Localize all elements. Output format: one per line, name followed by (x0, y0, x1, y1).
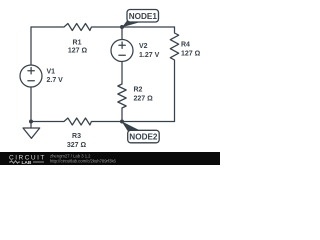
svg-text:R1: R1 (73, 40, 82, 47)
svg-text:V2: V2 (139, 43, 148, 50)
svg-text:V1: V1 (47, 69, 56, 76)
svg-text:R2: R2 (134, 87, 143, 94)
svg-text:227 Ω: 227 Ω (134, 96, 154, 103)
svg-text:327 Ω: 327 Ω (67, 142, 87, 149)
svg-text:http://circuitlab.com/c/2kuh78: http://circuitlab.com/c/2kuh789rf3k6 (50, 159, 117, 164)
svg-text:1.27 V: 1.27 V (139, 52, 160, 59)
svg-text:R3: R3 (72, 133, 81, 140)
svg-text:LAB: LAB (22, 160, 32, 165)
svg-text:2.7 V: 2.7 V (47, 77, 64, 84)
svg-text:NODE2: NODE2 (129, 133, 158, 142)
svg-text:127 Ω: 127 Ω (181, 51, 201, 58)
svg-text:127 Ω: 127 Ω (68, 48, 88, 55)
svg-text:NODE1: NODE1 (129, 12, 158, 21)
svg-text:R4: R4 (181, 42, 190, 49)
